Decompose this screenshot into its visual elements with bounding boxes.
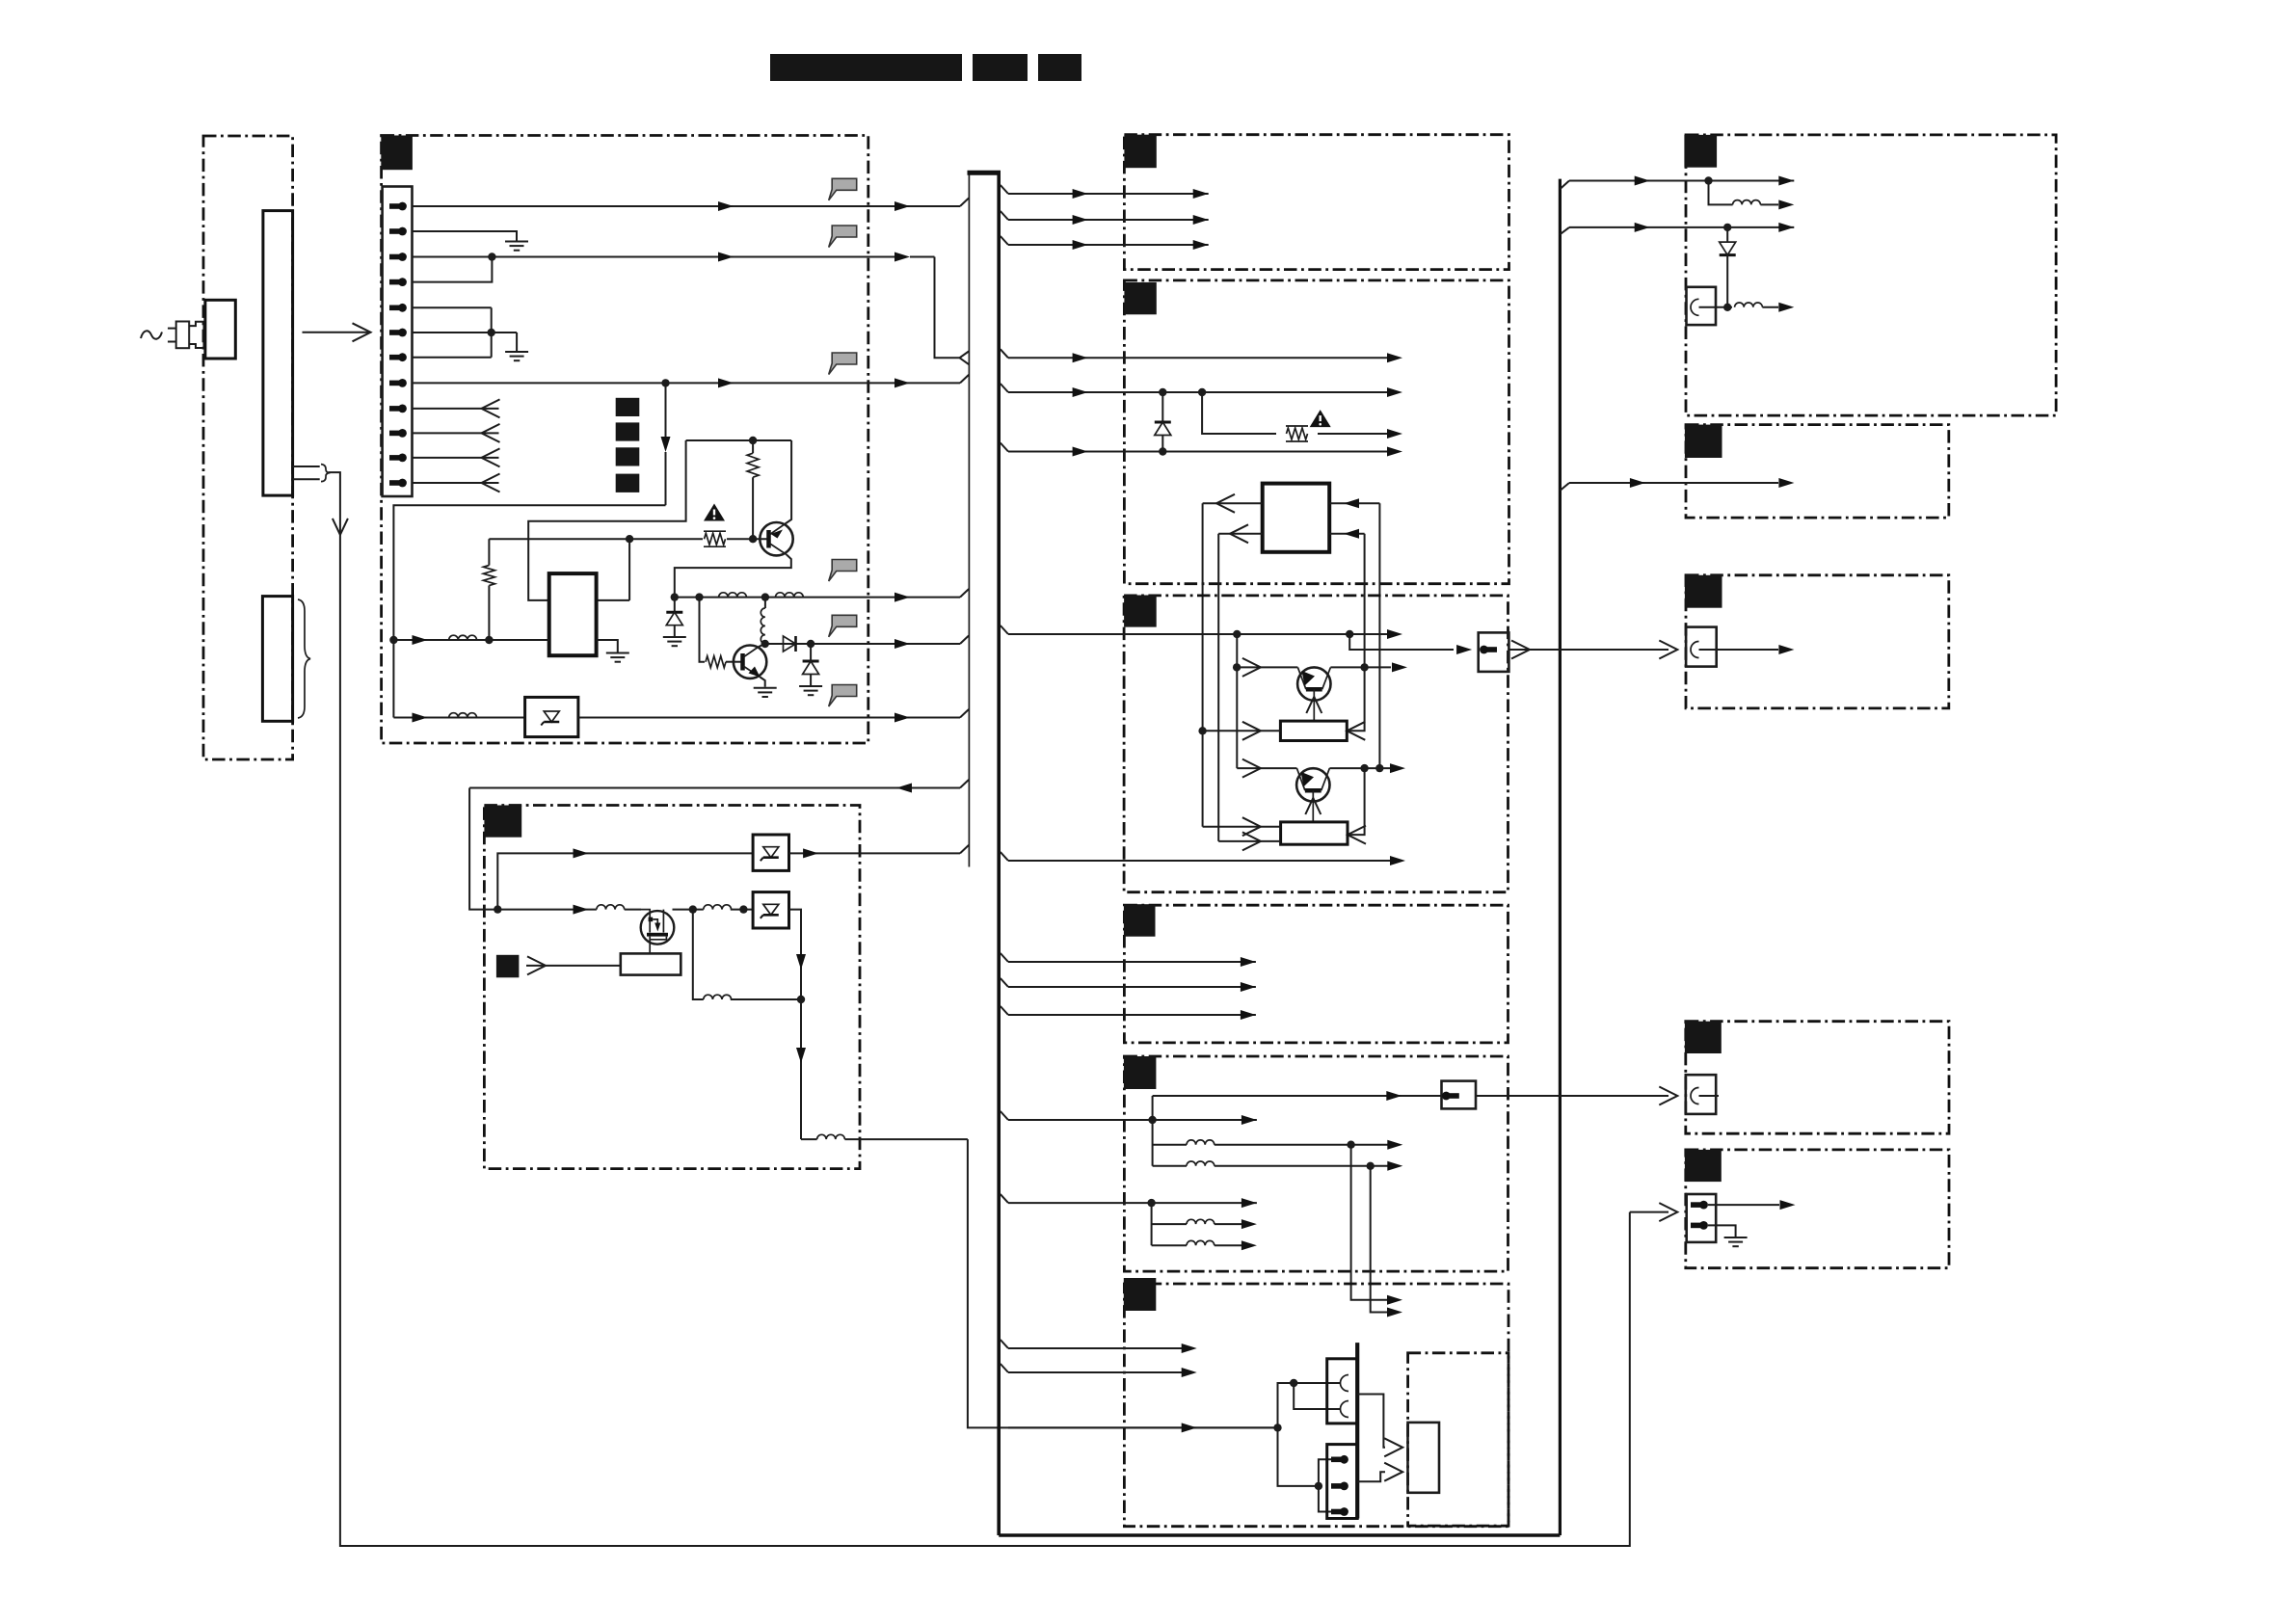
wire power board to connector with arrow <box>303 332 369 333</box>
Q2 collector lead <box>759 644 765 647</box>
Q2 base branch <box>700 598 706 662</box>
speaker wire A <box>1699 306 1733 308</box>
R6b module rectangle <box>1408 1423 1440 1493</box>
MOSFET Q3 <box>641 910 675 954</box>
warning triangle R2 <box>1310 410 1331 427</box>
long service wire from brace down-left-bottom <box>329 472 1630 1546</box>
junction R2 bottom <box>485 636 493 644</box>
junction pin3/pin4 <box>488 253 495 260</box>
CN1 pin 9 <box>389 405 407 413</box>
rail stub B chevron <box>1560 483 1569 491</box>
CN4 pin1 wire out <box>1708 1204 1779 1206</box>
wire MOSFET to junction A <box>673 909 704 911</box>
power board tap prong upper <box>293 466 320 467</box>
R3 gray wire y893 <box>1008 860 1391 862</box>
pot2 upper-left wire <box>1203 826 1281 828</box>
R2 wire2 <box>1008 391 1391 393</box>
wire R3 to Q2 base <box>726 661 741 663</box>
down open arrow on service wire <box>333 519 348 535</box>
junction pin8 branch <box>661 379 669 386</box>
R1 wire2 <box>1008 219 1209 221</box>
vertical tie pins5-7 <box>491 307 493 357</box>
bus exit stub R1 wire1 <box>1001 185 1008 194</box>
bus exit stub R1 wire2 <box>1001 211 1008 220</box>
IC right lower pin to ground <box>597 640 618 652</box>
R3 output connector box <box>1479 632 1509 672</box>
CN2 socket arc 2 <box>1341 1401 1349 1418</box>
R1 wire1 <box>1008 193 1209 195</box>
arrow on wire y885 <box>574 848 589 858</box>
R2 wire3 <box>1008 451 1391 453</box>
label square stack 3 <box>616 447 640 466</box>
box B dash-dot <box>1686 425 1949 518</box>
branch up to diode-box wire <box>497 853 753 909</box>
down arrow 2 on x831 <box>796 1048 806 1063</box>
bottom out wire y1182 <box>801 1138 817 1140</box>
junction A boxL <box>689 905 697 913</box>
speaker box D <box>1686 1075 1716 1114</box>
T1 wiper arrow <box>1306 697 1322 713</box>
stub y668 into bus <box>960 636 969 645</box>
junction y658 b <box>1346 630 1353 638</box>
box R3 label square <box>1124 596 1157 627</box>
box R5 label square <box>1124 1056 1157 1089</box>
coil L2 <box>719 593 747 598</box>
drop to pot2 right <box>1348 768 1365 835</box>
R5 connector out wire <box>1476 1095 1669 1097</box>
T2 emitter wire <box>1237 767 1296 769</box>
coil L6 <box>597 905 625 910</box>
bottom wire y744 in box2 <box>393 717 524 719</box>
ground G4 <box>663 637 686 646</box>
R6 wire1 <box>1008 1347 1185 1349</box>
wire connector to box C <box>1508 649 1669 651</box>
stub y817 from bus <box>960 780 969 788</box>
CN3 pin 1 <box>1331 1455 1348 1464</box>
box R6 label square <box>1124 1278 1157 1311</box>
R5 input wire2 <box>1008 1202 1257 1204</box>
AC plug nose <box>189 322 203 348</box>
junction left rail at IC wire <box>389 636 397 644</box>
coil L3 <box>776 593 804 598</box>
junction lower conn <box>1315 1482 1322 1490</box>
stub pin8 into bus <box>960 375 969 384</box>
resistor R1 vertical <box>752 440 754 453</box>
speaker arc C <box>1691 642 1699 658</box>
branch to output connector <box>1349 634 1454 650</box>
feed riser to upper connector <box>1278 1383 1341 1427</box>
AC plug prong lower <box>168 341 176 343</box>
bus entry chevron pin3 net <box>960 352 970 365</box>
box C dash-dot <box>1686 575 1949 708</box>
wire y885 to bus <box>789 852 961 854</box>
T2 collector wire <box>1329 767 1391 769</box>
wire into box E <box>1630 1211 1669 1213</box>
flag 6 <box>829 685 857 707</box>
bus bottom link to right rail <box>999 1533 1560 1537</box>
box D dash-dot <box>1686 1022 1949 1134</box>
zener D3 to ground <box>810 644 812 661</box>
rail stub wire A1 <box>1569 180 1794 182</box>
junction R2 wire3 at diode <box>1159 447 1166 455</box>
box L feed elbow <box>469 788 497 910</box>
R1 wire3 <box>1008 244 1209 246</box>
wire coil L8 to junction C <box>731 998 801 1000</box>
CN1 pin 2 <box>389 227 407 236</box>
junction A3 <box>1723 224 1731 231</box>
T2 wiper arrow <box>1305 798 1321 814</box>
wire pin10 input with open arrow <box>413 432 499 434</box>
CN1 pin 1 <box>389 202 407 211</box>
R5 coil wire C <box>1152 1223 1187 1225</box>
junction T2 collector a <box>1360 764 1368 772</box>
bus exit stub R4 wire3 <box>1001 1006 1008 1015</box>
fusible resistor FR1 <box>704 531 726 546</box>
junction upper conn <box>1290 1379 1297 1387</box>
diode D5 down <box>1726 227 1728 242</box>
zener box Z1 <box>525 697 578 736</box>
junction pin6 tie <box>488 329 495 336</box>
wire elbow to left rail <box>393 505 665 717</box>
junction base wire at IC tie <box>626 535 633 543</box>
wire A4 out <box>1762 306 1778 308</box>
U2 right pin2 drop <box>1364 534 1366 668</box>
junction base wire at R1 <box>749 535 757 543</box>
main bus top cap <box>968 171 1001 175</box>
Z3 out elbow down <box>789 910 802 1140</box>
R6 wire2 <box>1008 1371 1185 1373</box>
driver input wire with open arrow <box>526 965 621 967</box>
CN1 pin 4 <box>389 278 407 286</box>
junction y668 at zener <box>807 640 814 648</box>
wire Q1 emitter node horizontal <box>686 439 792 441</box>
CN1 pin 10 <box>389 429 407 438</box>
IC U2 bold rectangle <box>1263 484 1330 552</box>
junction y658 a <box>1233 630 1241 638</box>
bus exit stub R3 wire <box>1001 625 1008 634</box>
junction R5 input2 <box>1147 1199 1155 1207</box>
box R1 dash-dot <box>1124 135 1508 270</box>
R3 supply wire y658 <box>1008 633 1391 635</box>
AC input unit dash-dot box <box>203 136 293 759</box>
wire pin7 <box>413 357 492 359</box>
speaker arc A <box>1691 299 1699 315</box>
resistor R3 horizontal <box>706 656 726 668</box>
R2 wire1 <box>1008 357 1391 359</box>
wire pin11 input with open arrow <box>413 457 499 459</box>
junction resistor top <box>749 437 757 444</box>
bus exit stub R2 wire3 <box>1001 443 1008 452</box>
box E dash-dot <box>1686 1150 1949 1268</box>
zener box Z3 <box>753 892 788 928</box>
junction A4 <box>1723 304 1731 311</box>
brace right of lower module <box>298 599 310 718</box>
CN4 pin2 wire to ground <box>1708 1225 1736 1237</box>
flag 5 <box>829 615 857 637</box>
transistor Q2 NPN <box>734 646 766 678</box>
title bar 1 (redacted) <box>770 54 962 81</box>
box L dash-dot box <box>484 806 860 1169</box>
bus exit stub R6 wire1 <box>1001 1340 1008 1348</box>
rail stub A3 chevron <box>1560 227 1569 234</box>
R5 top wire to connector <box>1153 1095 1442 1097</box>
box R5 dash-dot <box>1124 1056 1508 1271</box>
U2 left pin2 drop <box>1217 534 1219 841</box>
wire pin5 <box>413 306 492 308</box>
coil L11 <box>1735 303 1763 307</box>
bus exit stub R5 wire2 <box>1001 1194 1008 1203</box>
bus exit stub R2 wire2 <box>1001 384 1008 392</box>
R5 input wire1 <box>1008 1119 1257 1121</box>
feedback path from emitter node to IC left pin <box>528 440 685 600</box>
CN1 pin 12 <box>389 479 407 488</box>
R4 wire2 <box>1008 986 1256 988</box>
power unit dash-dot box <box>382 136 868 744</box>
return wire y817 from bus <box>469 787 960 789</box>
junction A1 <box>1704 176 1712 184</box>
Q2 collector junction <box>761 640 769 648</box>
T1 emitter rail drop <box>1236 634 1238 768</box>
upper connector CN2 <box>1327 1359 1358 1423</box>
resistor wire out <box>1318 433 1391 435</box>
wire pin9 input with open arrow <box>413 408 499 410</box>
feed to upper conn pin2 <box>1294 1383 1340 1409</box>
branch coil wire A2 <box>1709 181 1733 205</box>
ground G1 <box>505 242 528 251</box>
R4 wire3 <box>1008 1014 1256 1016</box>
lower conn pin1 wire <box>1319 1459 1331 1486</box>
wire y1182 to riser <box>844 1138 968 1140</box>
R6b wire 2 <box>1357 1472 1385 1481</box>
coil L8 <box>704 995 732 999</box>
connector CN4 box E <box>1687 1194 1717 1242</box>
arrow into connector box <box>1456 645 1472 654</box>
connector CN1 strip <box>383 187 413 497</box>
CN1 pin 7 <box>389 353 407 361</box>
AC plug prong upper <box>168 328 176 330</box>
flag 2 <box>829 226 857 248</box>
junction R5 input1 <box>1148 1116 1156 1124</box>
wire pin8 to bus <box>413 382 961 384</box>
AC plug body <box>176 322 190 349</box>
flag 4 <box>829 560 857 582</box>
wire A2 out <box>1760 203 1778 205</box>
wire pin3 <box>413 256 896 258</box>
Q1 collector lead to node A <box>675 555 791 598</box>
zener box Z2 <box>753 835 788 870</box>
box L driver label square <box>496 955 520 978</box>
sub-box R6b dash-dot <box>1408 1353 1508 1526</box>
ground G7 <box>1724 1237 1748 1246</box>
bus exit stub R5 wire1 <box>1001 1111 1008 1120</box>
junction R2 wire2 at diode <box>1159 388 1166 396</box>
R5 coil wire D <box>1152 1244 1187 1246</box>
rail stub wire B <box>1569 482 1778 484</box>
coil L7 <box>704 905 732 910</box>
junction T1 collector <box>1360 663 1368 671</box>
main bus left wall <box>968 173 970 866</box>
branch to resistor wire <box>1202 392 1276 434</box>
wire pin2 to ground <box>413 231 518 241</box>
box R2 dash-dot <box>1124 280 1508 584</box>
junction C boxL <box>797 996 805 1003</box>
base drive wire y559 <box>489 538 703 540</box>
junction R2 wire2 branch <box>1198 388 1206 396</box>
box A dash-dot <box>1686 135 2056 415</box>
U2 right pin2 wire <box>1329 533 1364 535</box>
ground G3 <box>606 653 629 662</box>
box D label square <box>1685 1022 1722 1053</box>
transistor Q1 PNP <box>760 522 792 555</box>
coil L9 <box>817 1134 845 1139</box>
rail stub wire A3 <box>1569 226 1794 228</box>
speaker arc D <box>1691 1088 1699 1104</box>
power board lower module rectangle <box>262 597 292 722</box>
U2 right pin1 wire <box>1329 502 1379 504</box>
R6b wire 1 <box>1357 1395 1385 1448</box>
down arrow 1 on x831 <box>796 954 806 970</box>
junction pot1 left <box>1198 727 1206 734</box>
bus exit stub R1 wire3 <box>1001 236 1008 245</box>
node A junction <box>671 593 679 600</box>
CN4 pin 1 <box>1691 1201 1708 1210</box>
output wire y668 <box>765 643 960 645</box>
potentiometer P1 <box>1280 721 1347 740</box>
box R6 dash-dot <box>1124 1284 1508 1527</box>
IC input wire <box>393 639 548 641</box>
IC U1 bold rectangle <box>549 573 597 655</box>
wire pin6 to ground <box>413 332 518 333</box>
stub y744 into bus <box>960 709 969 718</box>
U2 left pin1 wire <box>1203 502 1263 504</box>
IC tie vertical <box>628 539 630 600</box>
label square stack 4 <box>616 474 640 492</box>
box R4 label square <box>1124 904 1156 937</box>
coil L1 on IC input <box>449 635 477 640</box>
R3 connector pin <box>1480 646 1497 654</box>
transistor T1 PNP <box>1297 667 1330 721</box>
junction B boxL <box>739 905 747 913</box>
box L label square <box>484 806 521 838</box>
box B label square <box>1685 425 1722 458</box>
diode D4 between rails <box>1161 392 1163 422</box>
junction T2 collector b <box>1375 764 1383 772</box>
bottom wire y744 to bus <box>578 717 960 719</box>
label square stack 2 <box>616 422 640 440</box>
speaker wire D tick <box>1699 1095 1720 1097</box>
CN1 pin 5 <box>389 304 407 312</box>
R5 connector box <box>1442 1081 1477 1109</box>
main bus right wall <box>997 173 1001 1535</box>
wire pin3 jog down to bus entry <box>935 257 960 359</box>
CN3 pin 2 <box>1331 1482 1348 1491</box>
speaker box C <box>1686 627 1717 667</box>
box R3 dash-dot <box>1124 596 1508 892</box>
bus exit stub R3 gray wire <box>1001 852 1008 861</box>
AC mains sine symbol <box>141 331 162 338</box>
power unit label square <box>381 136 413 171</box>
wire pin4 to junction <box>413 257 493 282</box>
bus exit stub R6 wire2 <box>1001 1364 1008 1372</box>
flag 1 <box>829 178 857 200</box>
main output wire y619 <box>675 597 960 599</box>
T1 collector wire <box>1330 666 1391 668</box>
pot1 left wire <box>1203 730 1281 732</box>
ground G6 <box>799 686 822 695</box>
AC receptacle box <box>205 300 235 359</box>
CN3 pin 3 <box>1331 1507 1348 1516</box>
driver rectangle <box>621 953 681 974</box>
junction coil B <box>1367 1162 1375 1170</box>
riser x1004 down to connector feed <box>968 1139 1278 1427</box>
CN2 socket arc 1 <box>1341 1375 1349 1392</box>
drop coil A to box R6 <box>1351 1145 1391 1300</box>
junction y619 at coil tap <box>761 593 769 600</box>
diode D2 series <box>784 636 796 652</box>
stub pin1 into bus <box>960 199 969 207</box>
box R2 label square <box>1124 282 1156 314</box>
Q2 emitter to ground <box>761 678 765 687</box>
warning triangle box2 <box>704 504 725 521</box>
IC right pin wire <box>597 599 630 601</box>
Q1 emitter lead up <box>786 440 792 524</box>
junction coil A <box>1347 1141 1354 1149</box>
CN1 pin 11 <box>389 454 407 463</box>
junction feed <box>1273 1423 1281 1431</box>
T1 emitter wire <box>1237 666 1297 668</box>
R4 wire1 <box>1008 961 1256 963</box>
diode D1 to ground <box>674 598 676 613</box>
CN4 pin 2 <box>1691 1221 1708 1230</box>
junction T1 wire <box>1233 663 1241 671</box>
vertical from pin8 junction with down arrow <box>665 383 667 438</box>
box A label square <box>1684 135 1717 168</box>
coil L5 <box>449 713 477 718</box>
R5 connector pin <box>1442 1092 1459 1101</box>
feed drop to lower connector <box>1278 1427 1319 1486</box>
wire coil to MOSFET <box>625 909 641 911</box>
drop coil B to box R6 <box>1371 1166 1391 1313</box>
rail stub A1 chevron <box>1560 181 1569 190</box>
title bar 3 (redacted) <box>1038 54 1081 81</box>
coil L10 <box>1733 200 1761 205</box>
stub y619 into bus <box>960 589 969 598</box>
resistor R4 fusible <box>1286 426 1308 441</box>
junction y619 at Q2 branch <box>695 593 703 600</box>
power board PCB rectangle <box>263 211 293 495</box>
box C label square <box>1685 575 1722 608</box>
transistor T2 PNP <box>1296 768 1329 822</box>
speaker wire C out <box>1699 649 1779 651</box>
U2 left pin2 wire <box>1218 533 1263 535</box>
connector mounting rail <box>1355 1343 1359 1518</box>
title bar 2 (redacted) <box>973 54 1028 81</box>
wire to zener box Z3 <box>731 909 753 911</box>
junction boxL feed <box>494 905 501 913</box>
box R4 dash-dot <box>1124 905 1508 1043</box>
pot2 lower-left wire <box>1218 840 1280 842</box>
box R1 label square <box>1124 135 1156 169</box>
pot2 right open arrow <box>1348 826 1366 844</box>
wire pin1 to bus <box>413 205 961 207</box>
wire pin12 input with open arrow <box>413 482 499 484</box>
CN1 pin 6 <box>389 329 407 337</box>
label square stack 1 <box>616 398 640 416</box>
vertical coil L4 <box>764 598 766 608</box>
drop to pot1 right <box>1347 667 1364 731</box>
lower connector CN3 <box>1327 1445 1358 1519</box>
R5 coil wire B <box>1153 1165 1187 1167</box>
